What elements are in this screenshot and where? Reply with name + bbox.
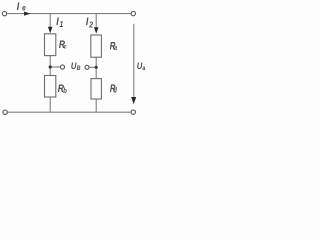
svg-text:b: b	[63, 88, 67, 96]
svg-text:I: I	[86, 16, 89, 28]
svg-text:d: d	[113, 87, 117, 95]
svg-text:c: c	[64, 44, 67, 51]
svg-text:B: B	[77, 64, 81, 72]
svg-text:2: 2	[88, 20, 93, 30]
svg-text:a: a	[114, 45, 117, 53]
svg-text:a: a	[142, 65, 146, 73]
svg-text:I: I	[17, 1, 20, 13]
svg-text:1: 1	[60, 20, 64, 30]
svg-text:I: I	[56, 16, 59, 28]
svg-text:e: e	[22, 3, 26, 13]
